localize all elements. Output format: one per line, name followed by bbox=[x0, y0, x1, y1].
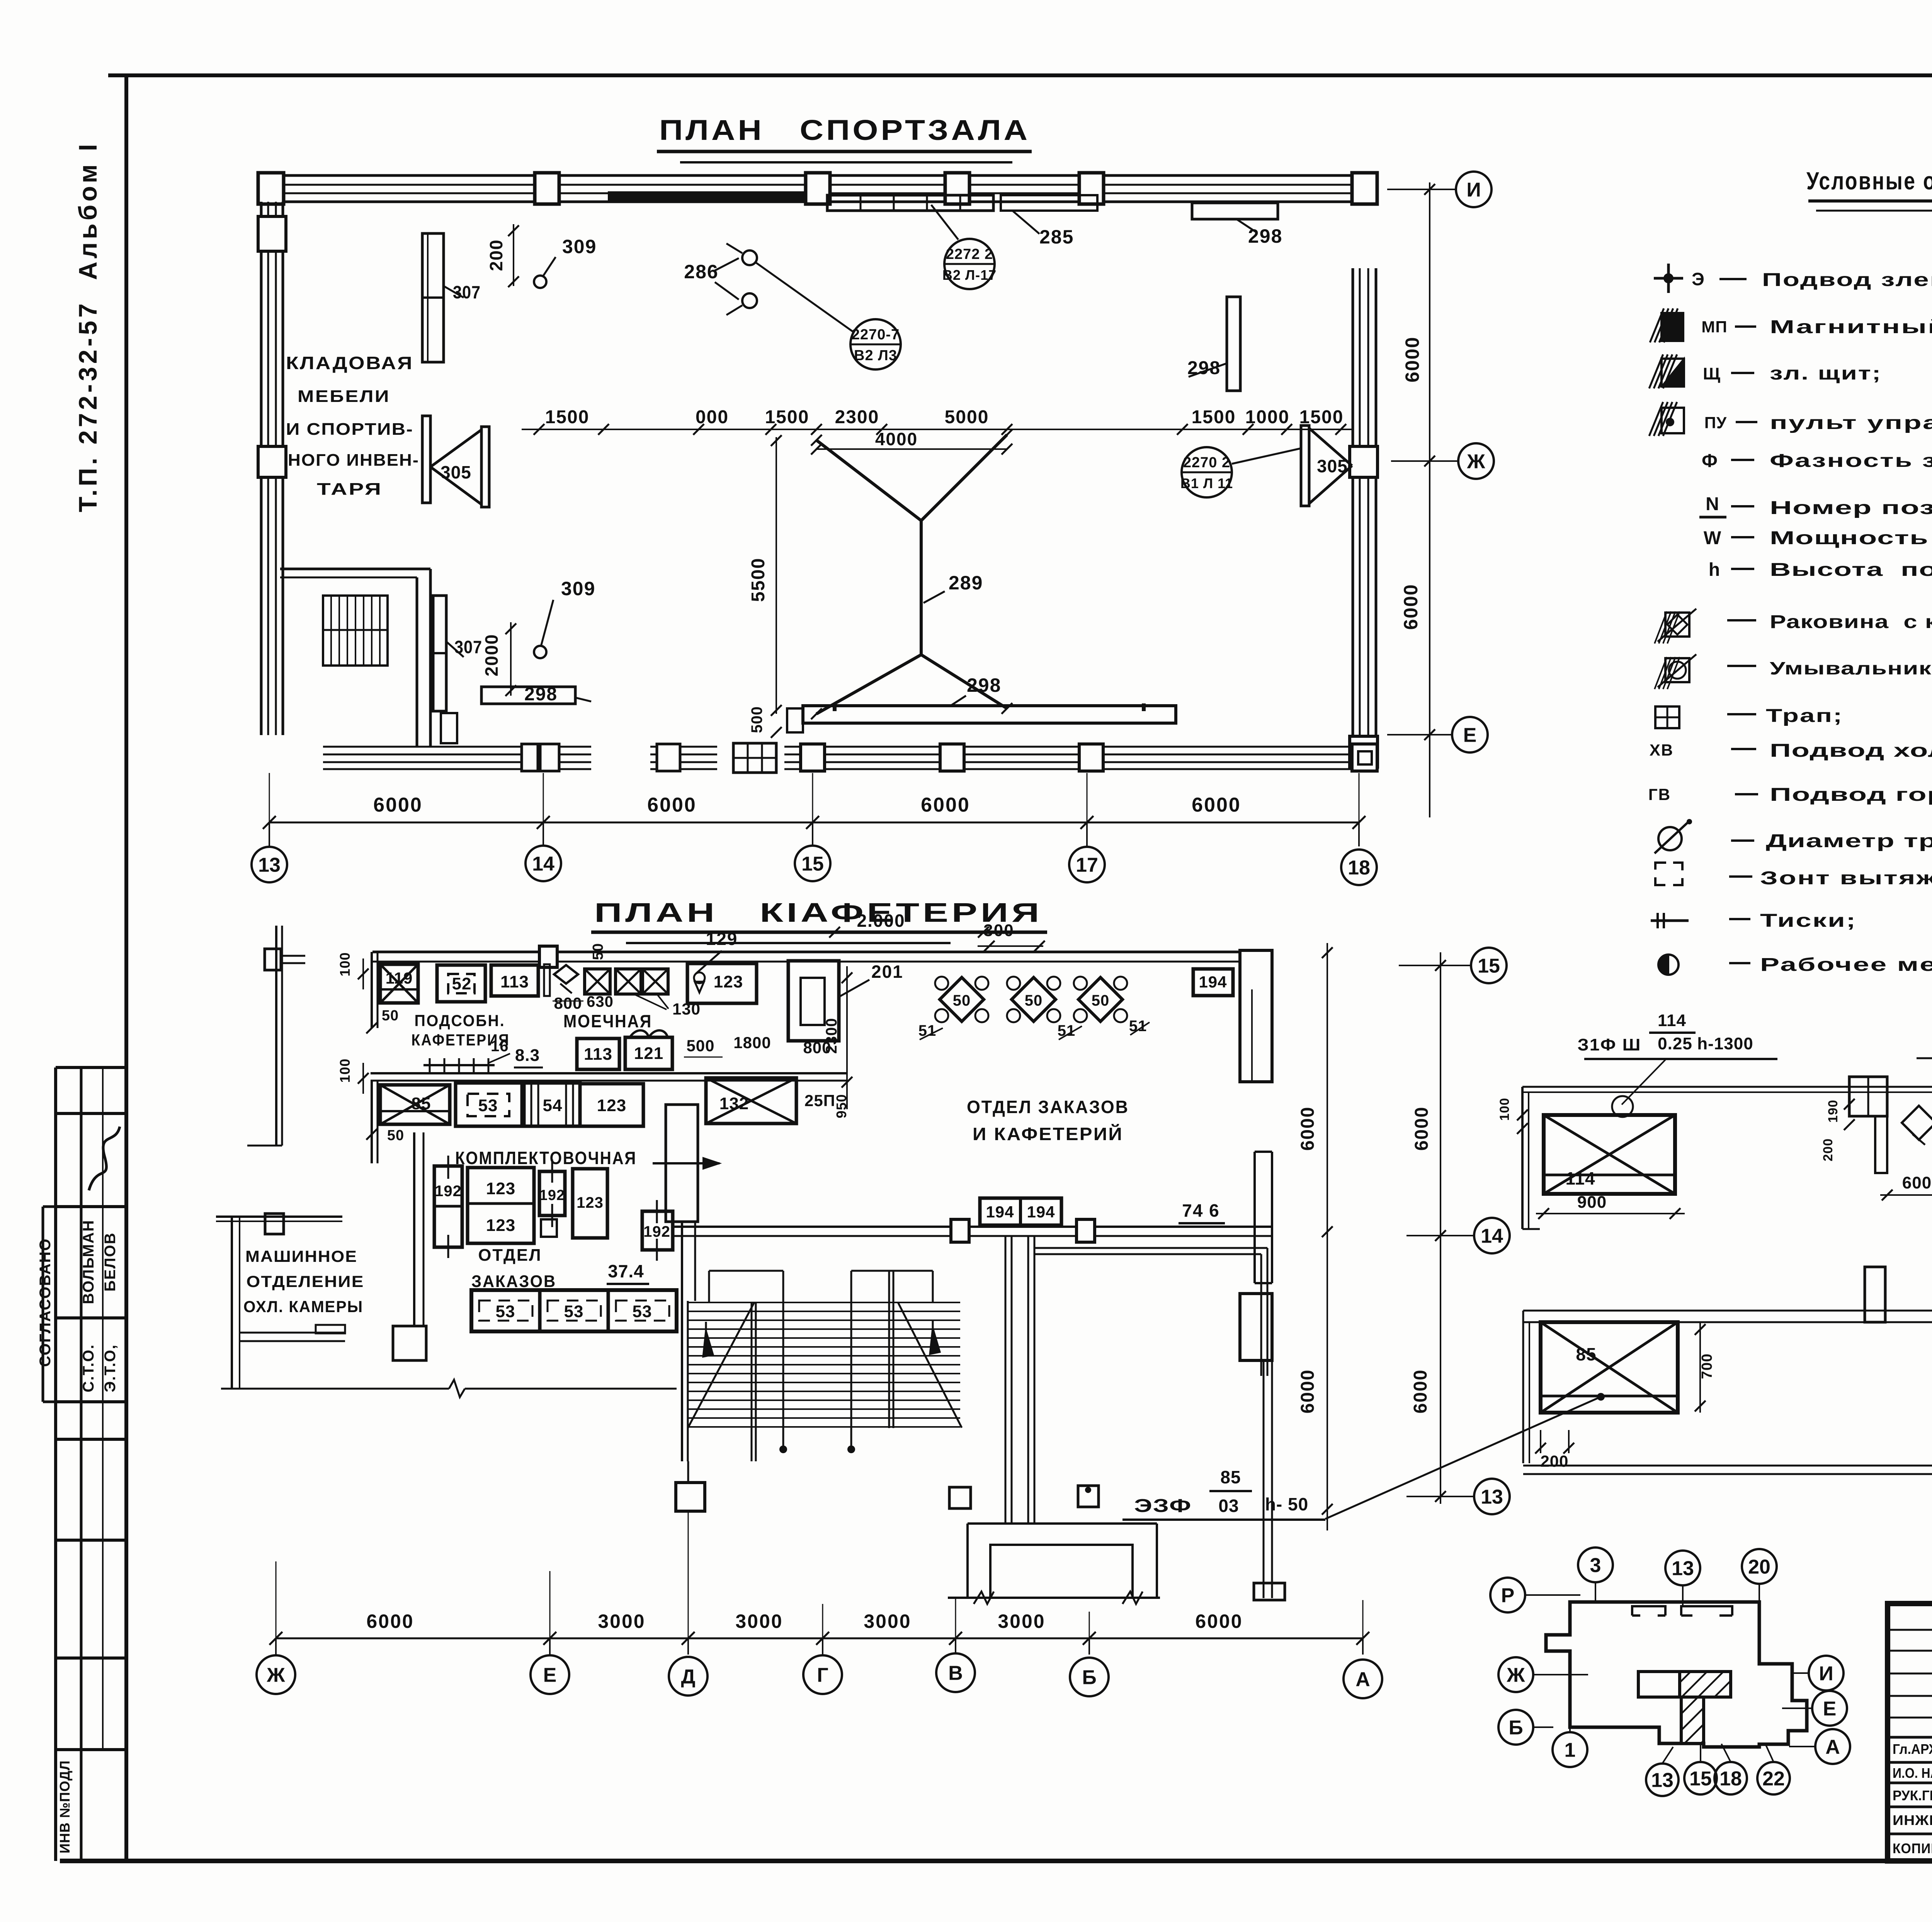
trapezoid 305 left bbox=[481, 427, 489, 507]
caf left kitchen wall upper bbox=[371, 952, 373, 1028]
right wall lower caf bbox=[1253, 1152, 1256, 1283]
svg-text:ПЛАН КIАФЕТЕРИЯ: ПЛАН КIАФЕТЕРИЯ bbox=[594, 897, 1043, 928]
leader to montage box85 bbox=[1325, 1397, 1601, 1519]
key plan T bar bbox=[1638, 1672, 1680, 1697]
svg-text:132: 132 bbox=[719, 1094, 749, 1113]
small duct bbox=[544, 964, 550, 996]
svg-text:Фазность зл тока;: Фазность зл тока; bbox=[1770, 451, 1932, 471]
caf outer left wall bbox=[275, 926, 277, 1146]
box 54 bbox=[524, 1083, 580, 1126]
svg-text:54: 54 bbox=[543, 1096, 563, 1115]
svg-text:18: 18 bbox=[1348, 857, 1370, 879]
conduit verticals bbox=[1005, 1236, 1007, 1524]
svg-text:И СПОРТИВ-: И СПОРТИВ- bbox=[286, 420, 413, 439]
dim 2000 vertical bbox=[510, 622, 512, 696]
legend row 16 tiski bbox=[1651, 919, 1689, 922]
svg-text:700: 700 bbox=[1699, 1353, 1715, 1379]
central wall shaft bbox=[666, 1105, 698, 1222]
svg-text:Ж: Ж bbox=[1507, 1664, 1526, 1687]
svg-text:А: А bbox=[1355, 1668, 1370, 1691]
svg-text:85: 85 bbox=[1220, 1467, 1241, 1487]
duct block bbox=[1849, 1077, 1887, 1116]
gym right wall bbox=[1352, 268, 1354, 767]
legend row 3 shield bbox=[1662, 359, 1684, 386]
svg-text:Подвод злектроэнергии;: Подвод злектроэнергии; bbox=[1762, 270, 1932, 290]
montage left wall bbox=[1521, 1087, 1524, 1229]
svg-text:8.3: 8.3 bbox=[515, 1046, 540, 1065]
svg-text:КОМПЛЕКТОВОЧНАЯ: КОМПЛЕКТОВОЧНАЯ bbox=[455, 1148, 637, 1168]
svg-text:13: 13 bbox=[1481, 1486, 1503, 1508]
svg-text:ЗАКАЗОВ: ЗАКАЗОВ bbox=[471, 1272, 556, 1291]
svg-text:КОПИРОВ.: КОПИРОВ. bbox=[1893, 1840, 1932, 1856]
svg-text:113: 113 bbox=[500, 972, 529, 991]
svg-text:22: 22 bbox=[1762, 1768, 1785, 1790]
svg-text:Мощность зл. тока;: Мощность зл. тока; bbox=[1770, 528, 1932, 548]
box 192 tall bbox=[434, 1166, 462, 1247]
svg-text:И: И bbox=[1819, 1663, 1833, 1685]
svg-text:1000: 1000 bbox=[1245, 407, 1290, 427]
svg-text:000: 000 bbox=[696, 407, 729, 427]
svg-text:286: 286 bbox=[684, 261, 718, 283]
box 192 small bbox=[539, 1171, 565, 1216]
svg-text:Б: Б bbox=[1509, 1717, 1523, 1739]
box 52 bbox=[437, 965, 485, 1002]
svg-text:53: 53 bbox=[564, 1302, 584, 1321]
diamond sink bbox=[554, 965, 578, 984]
svg-text:Зонт вытяжной;: Зонт вытяжной; bbox=[1760, 868, 1932, 889]
legend row 1 electro bbox=[1667, 264, 1670, 293]
svg-text:h: h bbox=[1709, 560, 1720, 580]
svg-text:74 6: 74 6 bbox=[1182, 1200, 1220, 1221]
svg-text:192: 192 bbox=[643, 1223, 670, 1240]
svg-text:6000: 6000 bbox=[1401, 336, 1423, 382]
gym right grid dims bbox=[1429, 182, 1430, 817]
machine room walls bbox=[216, 1216, 342, 1218]
caf grid circles bbox=[257, 1655, 295, 1694]
key plan circles right bbox=[1809, 1656, 1844, 1690]
svg-text:ТАРЯ: ТАРЯ bbox=[317, 480, 383, 499]
svg-text:100: 100 bbox=[337, 1058, 353, 1083]
key plan circles bottom bbox=[1646, 1764, 1679, 1796]
svg-text:289: 289 bbox=[949, 572, 983, 594]
svg-text:ОХЛ. КАМЕРЫ: ОХЛ. КАМЕРЫ bbox=[243, 1297, 363, 1316]
stairs gym bbox=[323, 596, 388, 666]
legend row 10 washbasin bbox=[1665, 658, 1689, 682]
svg-text:Подвод горячей воды;: Подвод горячей воды; bbox=[1770, 785, 1932, 805]
box 123 funnel bbox=[687, 964, 757, 1003]
svg-text:5500: 5500 bbox=[748, 558, 769, 602]
svg-text:КЛАДОВАЯ: КЛАДОВАЯ bbox=[286, 353, 413, 373]
svg-text:6000: 6000 bbox=[1410, 1369, 1431, 1414]
equip circle 2270-2 bbox=[1182, 447, 1232, 497]
boxes 194 194 bbox=[980, 1198, 1061, 1225]
legend row 2 MP bbox=[1662, 313, 1683, 341]
svg-text:3000: 3000 bbox=[998, 1610, 1045, 1632]
svg-text:ИНЖЕНЕР: ИНЖЕНЕР bbox=[1893, 1812, 1932, 1828]
svg-text:Э.Т.О,: Э.Т.О, bbox=[102, 1344, 119, 1393]
svg-text:ОТДЕЛ ЗАКАЗОВ: ОТДЕЛ ЗАКАЗОВ bbox=[967, 1097, 1129, 1117]
svg-text:298: 298 bbox=[1248, 225, 1282, 247]
circle 309 lower bbox=[534, 646, 546, 658]
svg-text:ПЛАН СПОРТЗАЛА: ПЛАН СПОРТЗАЛА bbox=[659, 114, 1030, 146]
circle 309 upper bbox=[534, 276, 546, 288]
svg-text:ПОДСОБН.: ПОДСОБН. bbox=[415, 1011, 505, 1030]
svg-text:Д: Д bbox=[681, 1666, 695, 1688]
gym bottom wall segment C bbox=[784, 746, 1376, 748]
svg-text:6000: 6000 bbox=[1195, 1610, 1243, 1632]
box 119 bbox=[380, 964, 418, 1003]
svg-text:3000: 3000 bbox=[735, 1610, 783, 1632]
svg-text:123: 123 bbox=[714, 972, 743, 991]
long base line with break bbox=[221, 1388, 449, 1390]
box 85 bbox=[380, 1085, 450, 1124]
svg-text:190: 190 bbox=[1826, 1100, 1840, 1123]
middle wall bbox=[1523, 1310, 1932, 1312]
svg-text:85: 85 bbox=[1576, 1344, 1596, 1364]
svg-text:15: 15 bbox=[1689, 1768, 1712, 1790]
svg-text:h- 50: h- 50 bbox=[1265, 1494, 1308, 1514]
svg-text:13: 13 bbox=[258, 854, 281, 877]
svg-text:6000: 6000 bbox=[1298, 1369, 1318, 1414]
svg-text:50: 50 bbox=[382, 1008, 399, 1024]
svg-text:Щ: Щ bbox=[1703, 364, 1721, 383]
svg-text:Р: Р bbox=[1501, 1585, 1515, 1607]
svg-text:ВОЛЬМАН: ВОЛЬМАН bbox=[80, 1220, 97, 1304]
svg-text:СОГЛАСОВАНО: СОГЛАСОВАНО bbox=[37, 1238, 54, 1367]
svg-text:6000: 6000 bbox=[373, 794, 423, 816]
montage lower left wall bbox=[1522, 1311, 1524, 1463]
gym bottom wall segment B bbox=[650, 746, 717, 748]
svg-text:100: 100 bbox=[337, 952, 353, 976]
svg-text:121: 121 bbox=[634, 1044, 663, 1063]
svg-text:Умывальник с туалетным краном: Умывальник с туалетным краном смесителем… bbox=[1770, 658, 1932, 678]
svg-text:114: 114 bbox=[1658, 1011, 1686, 1030]
svg-text:Е: Е bbox=[1823, 1698, 1837, 1720]
svg-text:300: 300 bbox=[983, 921, 1014, 940]
box 194 top bbox=[1193, 969, 1233, 996]
equip circle 2272-2 bbox=[944, 239, 995, 289]
svg-text:Ф: Ф bbox=[1702, 451, 1718, 471]
svg-text:1800: 1800 bbox=[733, 1033, 771, 1052]
svg-text:200: 200 bbox=[486, 239, 506, 271]
svg-text:0.25: 0.25 bbox=[1658, 1034, 1692, 1053]
bench 298 top right bbox=[1192, 203, 1278, 219]
approval table bbox=[56, 1066, 126, 1069]
title block outer bbox=[1888, 1604, 1932, 1861]
cabinet 201 bbox=[788, 961, 839, 1041]
svg-text:РУК.ГРУППЫ: РУК.ГРУППЫ bbox=[1893, 1788, 1932, 1803]
svg-text:53: 53 bbox=[478, 1096, 498, 1115]
svg-text:В: В bbox=[948, 1662, 963, 1685]
dim 5500 vertical bbox=[776, 437, 777, 714]
svg-text:2.000: 2.000 bbox=[857, 911, 905, 931]
three wash boxes 130 bbox=[585, 969, 610, 994]
svg-text:Трап;: Трап; bbox=[1766, 706, 1843, 726]
svg-text:285: 285 bbox=[1039, 226, 1074, 248]
svg-text:114: 114 bbox=[1565, 1168, 1595, 1188]
gym bottom center grid box bbox=[733, 743, 776, 773]
svg-text:2270-7: 2270-7 bbox=[852, 327, 900, 343]
svg-text:Рабочее место: Рабочее место bbox=[1760, 955, 1932, 975]
interior L wall bottom-left bbox=[280, 568, 430, 570]
trapezoid 305 right bbox=[1301, 426, 1309, 506]
svg-text:53: 53 bbox=[496, 1302, 515, 1321]
svg-text:Гл.АРХ.ПР-ТА: Гл.АРХ.ПР-ТА bbox=[1893, 1741, 1932, 1757]
key plan leaders bbox=[1595, 1582, 1596, 1602]
corridor walls bbox=[674, 1226, 1272, 1228]
box 53 row3 bbox=[456, 1083, 522, 1126]
svg-text:200: 200 bbox=[1821, 1138, 1835, 1161]
svg-text:6000: 6000 bbox=[647, 794, 697, 816]
svg-text:И: И bbox=[1466, 179, 1481, 201]
svg-text:85: 85 bbox=[412, 1094, 431, 1113]
svg-text:Магнитный пускатель;: Магнитный пускатель; bbox=[1770, 317, 1932, 337]
svg-text:17: 17 bbox=[1076, 854, 1098, 877]
signature scribble bbox=[89, 1127, 120, 1190]
svg-text:2270 2: 2270 2 bbox=[1183, 455, 1230, 471]
svg-text:307: 307 bbox=[454, 637, 482, 657]
svg-text:305: 305 bbox=[440, 462, 471, 482]
svg-text:N: N bbox=[1706, 494, 1719, 514]
legend row 14 diameter bbox=[1658, 827, 1682, 850]
stair arrows bbox=[782, 1271, 784, 1449]
big box 132 bbox=[706, 1078, 796, 1124]
rack 307 lower bbox=[433, 596, 446, 711]
small squares bbox=[949, 1487, 971, 1508]
svg-text:БЕЛОВ: БЕЛОВ bbox=[102, 1232, 119, 1292]
sink circle on wall bbox=[1612, 1096, 1633, 1117]
equip circle 2270-7 bbox=[850, 319, 901, 369]
svg-text:123: 123 bbox=[486, 1216, 515, 1235]
svg-text:Высота подводки;: Высота подводки; bbox=[1770, 560, 1932, 580]
svg-text:900: 900 bbox=[1577, 1193, 1607, 1212]
svg-text:52: 52 bbox=[452, 974, 472, 993]
svg-text:ХВ: ХВ bbox=[1650, 741, 1673, 759]
rack 298 right bbox=[1227, 297, 1240, 391]
gym left wall column blocks bbox=[258, 216, 286, 251]
svg-text:14: 14 bbox=[1481, 1225, 1503, 1248]
shelf 285 bbox=[827, 195, 993, 211]
svg-text:Ж: Ж bbox=[1467, 451, 1486, 473]
bench 298 bottom-left bbox=[481, 687, 575, 704]
gym top wall columns bbox=[535, 173, 559, 204]
svg-text:500: 500 bbox=[748, 706, 765, 733]
svg-text:Б: Б bbox=[1082, 1667, 1096, 1689]
gym top wall bbox=[261, 174, 1374, 177]
dims under boxes bbox=[1880, 1194, 1932, 1196]
svg-text:100: 100 bbox=[1497, 1098, 1512, 1121]
svg-text:6000: 6000 bbox=[366, 1610, 414, 1632]
frame 289 bbox=[816, 440, 921, 521]
key plan building outline bbox=[1546, 1602, 1807, 1747]
legend row 9 sink bbox=[1665, 613, 1689, 637]
arrow right bbox=[653, 1162, 719, 1164]
svg-text:2272 2: 2272 2 bbox=[946, 246, 993, 262]
svg-text:W: W bbox=[1704, 528, 1721, 548]
montage left grid bbox=[1440, 952, 1441, 1504]
caf second wall bbox=[371, 1072, 847, 1074]
svg-text:3: 3 bbox=[1590, 1554, 1601, 1577]
caf bottom grid bbox=[276, 1638, 1363, 1639]
svg-text:Номер позиции оборудования на: Номер позиции оборудования на плане; bbox=[1770, 498, 1932, 518]
stair bottom column bbox=[676, 1483, 705, 1511]
svg-text:201: 201 bbox=[871, 962, 903, 982]
svg-text:1500: 1500 bbox=[765, 407, 810, 427]
legend row 11 trap bbox=[1655, 706, 1679, 728]
svg-text:1500: 1500 bbox=[1192, 407, 1236, 427]
svg-text:Условные обозначения:: Условные обозначения: bbox=[1806, 167, 1932, 195]
svg-text:МП: МП bbox=[1701, 318, 1727, 336]
svg-text:В1 Л 11: В1 Л 11 bbox=[1180, 475, 1233, 491]
box 121 bbox=[625, 1037, 672, 1069]
svg-text:13: 13 bbox=[1672, 1558, 1694, 1580]
stairs block bbox=[681, 1301, 683, 1461]
box 113 row2 bbox=[577, 1038, 619, 1069]
svg-text:Ж: Ж bbox=[267, 1664, 286, 1687]
svg-text:ГВ: ГВ bbox=[1648, 785, 1671, 804]
svg-text:Тиски;: Тиски; bbox=[1760, 911, 1857, 931]
svg-text:В2 Л3: В2 Л3 bbox=[854, 347, 897, 364]
dim 900 bbox=[1536, 1213, 1685, 1214]
hatch line 16 bbox=[423, 1064, 495, 1066]
svg-text:4000: 4000 bbox=[875, 429, 918, 449]
svg-text:И КАФЕТЕРИЙ: И КАФЕТЕРИЙ bbox=[973, 1124, 1123, 1144]
svg-text:500: 500 bbox=[686, 1037, 714, 1055]
diamond symbol bbox=[1902, 1106, 1932, 1140]
bench under rack bbox=[441, 713, 457, 743]
box 123 small bbox=[573, 1169, 607, 1238]
svg-text:ОТДЕЛЕНИЕ: ОТДЕЛЕНИЕ bbox=[247, 1272, 364, 1290]
svg-text:192: 192 bbox=[435, 1183, 462, 1200]
key plan dashed door tops bbox=[1632, 1606, 1665, 1616]
gym bottom grid dims bbox=[269, 822, 1359, 824]
svg-text:800: 800 bbox=[554, 994, 582, 1012]
svg-text:зл. щит;: зл. щит; bbox=[1770, 363, 1882, 384]
svg-text:37.4: 37.4 bbox=[608, 1261, 644, 1281]
svg-text:16: 16 bbox=[491, 1038, 509, 1055]
gym bottom wall segment A bbox=[323, 746, 591, 748]
svg-text:50: 50 bbox=[1092, 992, 1110, 1009]
svg-text:129: 129 bbox=[706, 929, 738, 949]
svg-text:20: 20 bbox=[1748, 1556, 1770, 1578]
svg-text:5000: 5000 bbox=[945, 407, 989, 427]
svg-text:МАШИННОЕ: МАШИННОЕ bbox=[245, 1247, 357, 1265]
svg-text:298: 298 bbox=[524, 684, 558, 705]
dim 2000 top bbox=[831, 931, 989, 933]
svg-text:194: 194 bbox=[986, 1203, 1014, 1221]
box 123 row3 bbox=[580, 1084, 643, 1126]
montage top wall bbox=[1522, 1086, 1932, 1088]
box 113 top bbox=[491, 965, 538, 996]
gym left wall bbox=[260, 202, 263, 735]
svg-text:119: 119 bbox=[386, 969, 413, 987]
svg-text:950: 950 bbox=[833, 1094, 849, 1118]
caf right vertical dim bbox=[1327, 943, 1328, 1530]
svg-text:6000: 6000 bbox=[1298, 1107, 1318, 1151]
gym right grid circles bbox=[1387, 189, 1456, 190]
svg-text:14: 14 bbox=[532, 853, 554, 875]
svg-text:ЭЗФ: ЭЗФ bbox=[1134, 1496, 1192, 1516]
svg-text:194: 194 bbox=[1199, 973, 1227, 991]
dim 4000 bbox=[816, 448, 1007, 450]
svg-text:А: А bbox=[1825, 1736, 1840, 1759]
svg-text:298: 298 bbox=[967, 674, 1001, 696]
svg-text:18: 18 bbox=[1719, 1768, 1742, 1790]
svg-text:В2 Л-17: В2 Л-17 bbox=[942, 267, 997, 283]
three boxes 53 bbox=[471, 1290, 677, 1331]
svg-text:50: 50 bbox=[387, 1127, 404, 1144]
svg-text:15: 15 bbox=[801, 853, 824, 875]
svg-text:51: 51 bbox=[918, 1022, 937, 1039]
caf right top column bbox=[1240, 950, 1272, 1082]
svg-text:Диаметр трубопровода в мм;: Диаметр трубопровода в мм; bbox=[1766, 831, 1932, 851]
svg-text:307: 307 bbox=[453, 282, 481, 302]
svg-text:3000: 3000 bbox=[864, 1610, 911, 1632]
box 123 double bbox=[468, 1168, 534, 1243]
svg-text:2000: 2000 bbox=[481, 634, 502, 676]
drawing frame border bbox=[108, 73, 1932, 77]
svg-text:123: 123 bbox=[577, 1194, 604, 1211]
svg-text:И.О. НАЧ.ОТД.: И.О. НАЧ.ОТД. bbox=[1893, 1765, 1932, 1781]
svg-text:ПУ: ПУ bbox=[1704, 414, 1727, 432]
svg-text:15: 15 bbox=[1478, 955, 1500, 977]
svg-text:123: 123 bbox=[597, 1096, 626, 1115]
svg-text:13: 13 bbox=[1651, 1769, 1673, 1792]
gym extension lines down bbox=[269, 773, 270, 822]
svg-text:50: 50 bbox=[1025, 992, 1043, 1009]
key plan circles top bbox=[1578, 1547, 1613, 1582]
svg-text:123: 123 bbox=[486, 1179, 515, 1198]
svg-text:Подвод холодной воды;: Подвод холодной воды; bbox=[1770, 741, 1932, 761]
dim 700 right of box85 bbox=[1699, 1322, 1701, 1413]
svg-text:Раковина с краном смесителем: Раковина с краном смесителем; bbox=[1770, 612, 1932, 632]
svg-text:Э: Э bbox=[1692, 269, 1705, 289]
svg-text:1: 1 bbox=[1565, 1739, 1576, 1762]
svg-text:25П: 25П bbox=[804, 1091, 835, 1110]
svg-text:53: 53 bbox=[633, 1302, 652, 1321]
stair diagonals bbox=[688, 1302, 754, 1428]
svg-text:МОЕЧНАЯ: МОЕЧНАЯ bbox=[563, 1011, 652, 1031]
basketball 286 bbox=[742, 250, 757, 265]
montage box 114 bbox=[1544, 1115, 1675, 1194]
svg-text:6000: 6000 bbox=[1192, 794, 1241, 816]
foundation bbox=[968, 1522, 1157, 1525]
middle dim chain bbox=[522, 429, 1353, 430]
svg-text:194: 194 bbox=[1027, 1203, 1055, 1221]
dim 2300 950 rot bbox=[846, 966, 848, 1109]
gym grid circles bottom bbox=[252, 847, 287, 882]
svg-text:192: 192 bbox=[539, 1187, 565, 1204]
dim 200 vertical bbox=[513, 224, 514, 286]
svg-text:Е: Е bbox=[1463, 724, 1477, 747]
svg-text:6000: 6000 bbox=[921, 794, 970, 816]
tables 50 bbox=[940, 977, 984, 1021]
legend row 17 workplace bbox=[1658, 955, 1679, 975]
svg-text:309: 309 bbox=[562, 236, 597, 257]
stair upper outlines bbox=[709, 1270, 783, 1272]
svg-text:630: 630 bbox=[587, 993, 614, 1010]
dark band under top wall bbox=[609, 192, 806, 202]
svg-text:МЕБЕЛИ: МЕБЕЛИ bbox=[298, 387, 390, 406]
caf extension lines bbox=[276, 1561, 277, 1638]
wall 192 area vertical bbox=[413, 1132, 415, 1327]
svg-text:пульт управления;: пульт управления; bbox=[1770, 413, 1932, 433]
svg-text:h-1300: h-1300 bbox=[1697, 1034, 1753, 1053]
svg-text:600: 600 bbox=[1902, 1173, 1932, 1192]
svg-text:113: 113 bbox=[584, 1045, 612, 1064]
svg-text:305: 305 bbox=[1317, 456, 1348, 476]
svg-text:200: 200 bbox=[1540, 1452, 1568, 1470]
